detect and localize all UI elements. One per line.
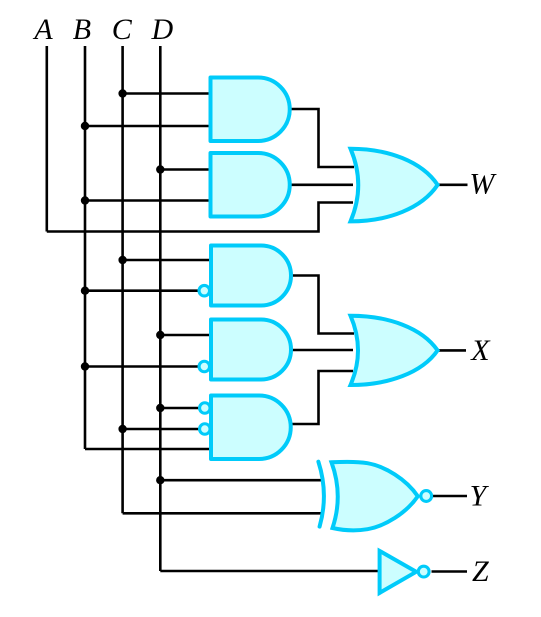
svg-text:X: X — [470, 334, 491, 367]
svg-text:B: B — [73, 13, 91, 46]
svg-text:A: A — [32, 13, 53, 46]
svg-text:Z: Z — [472, 555, 489, 588]
svg-text:C: C — [112, 13, 133, 46]
svg-text:Y: Y — [470, 480, 490, 513]
svg-text:W: W — [469, 167, 497, 200]
svg-text:D: D — [150, 13, 173, 46]
